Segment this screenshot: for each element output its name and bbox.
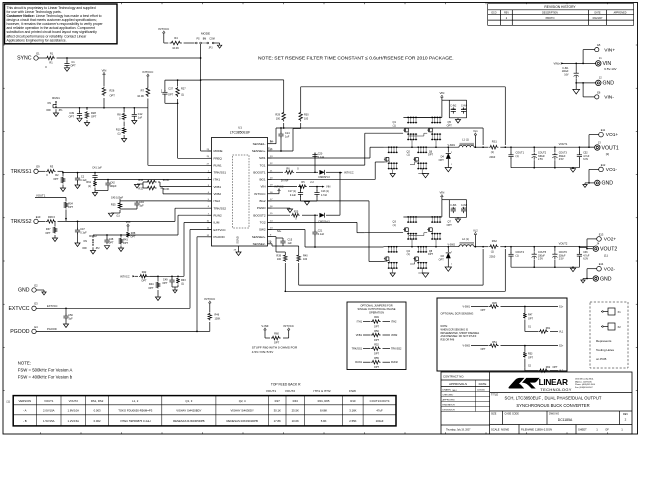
resistor R62 [524,368,526,371]
svg-text:25.5K: 25.5K [292,409,299,413]
svg-text:1uF: 1uF [68,318,73,321]
wire SENSE1 rail upper [201,79,284,81]
svg-text:INTVCC: INTVCC [158,27,169,31]
svg-text:OPT: OPT [91,115,97,119]
svg-text:100: 100 [277,258,282,261]
capacitor C36 4.7uF [578,247,580,253]
svg-text:FSW: FSW [349,389,356,393]
resistor R60 [264,333,266,338]
svg-text:E11: E11 [601,128,606,132]
wire SENSE1+ net [293,128,301,130]
svg-text:R46: R46 [215,314,220,317]
svg-text:SIZE: SIZE [491,413,497,416]
svg-text:R7: R7 [141,89,145,93]
svg-text:LTC3850EUF: LTC3850EUF [230,131,250,135]
svg-text:2.0V/10A: 2.0V/10A [43,409,55,413]
svg-text:Tooling Holes: Tooling Holes [596,348,615,352]
svg-text:VOUT1: VOUT1 [44,399,54,403]
svg-text:MODE: MODE [214,149,223,153]
svg-text:SCH, LTC3850EUF , DUAL PHASE/: SCH, LTC3850EUF , DUAL PHASE/DUAL OUTPUT [505,396,602,401]
jack VOUT1 [595,145,600,150]
svg-text:100: 100 [304,118,309,121]
svg-text:47uF: 47uF [376,409,383,413]
power INTVCC for R46 [209,303,211,306]
svg-text:TRK/SS1: TRK/SS1 [11,169,32,175]
resistor R27 [177,80,179,86]
svg-text:EXTVCC: EXTVCC [8,306,29,312]
svg-text:OPT: OPT [481,348,486,351]
svg-text:(1): (1) [181,283,184,286]
svg-text:100uF: 100uF [376,419,384,423]
svg-text:10.0K: 10.0K [172,46,179,50]
wire RUN2 to IC [92,235,94,238]
svg-text:Q2, 4: Q2, 4 [239,399,246,403]
svg-text:- A: - A [23,409,27,413]
tooling hole X2 [603,326,608,328]
diode D2 CMDSH-3 [315,214,318,216]
svg-text:RUN1: RUN1 [355,361,362,364]
proprietary notice box [5,4,118,44]
connector E6 VIN- [595,95,599,99]
svg-text:SENSE2+: SENSE2+ [252,235,266,239]
capacitor COUT5 330uF [533,247,535,252]
wire VO2- to GND jack [587,268,597,270]
svg-text:R49: R49 [374,316,379,319]
svg-text:0.1uF: 0.1uF [290,194,297,197]
svg-text:R28: R28 [91,111,96,115]
resistor R5 2.2 [268,186,298,188]
wire SW1 to power stage [315,157,370,159]
capacitor C-IN4 OPT [453,99,467,101]
svg-text:RS2: RS2 [492,239,498,243]
svg-text:TG2: TG2 [260,220,266,224]
svg-text:TRK/SS1: TRK/SS1 [214,171,227,175]
svg-text:INTVCC: INTVCC [143,70,154,74]
svg-text:OPT: OPT [428,154,434,157]
svg-text:TRK/SS1: TRK/SS1 [352,348,363,351]
resistor R63 [171,283,173,286]
capacitor C-IN1 100uF 16V [575,63,577,71]
svg-text:OPT: OPT [374,325,380,328]
svg-text:[1]: [1] [7,399,10,403]
wire VIN- to GND [583,96,595,98]
tooling holes dashed box [590,302,628,368]
capacitor C12 [133,108,135,113]
svg-text:E9: E9 [36,165,40,169]
svg-text:R27: R27 [181,87,186,90]
resistor R10 [123,122,125,127]
svg-text:10.0K: 10.0K [137,94,144,98]
svg-text:E12: E12 [601,163,606,167]
svg-text:1: 1 [451,164,452,166]
ground for R2 [62,185,64,189]
diode D1 CMDSH-3 [315,171,318,173]
svg-text:LINEAR: LINEAR [539,377,568,387]
svg-text:SINGLE OUTPUT/DUAL PHASE: SINGLE OUTPUT/DUAL PHASE [358,307,396,311]
svg-text:RS1: RS1 [492,139,498,143]
ground for C2 [77,182,79,186]
svg-text:(1): (1) [117,132,120,135]
ground for R61/C42 [94,188,96,193]
svg-text:[1]: [1] [604,253,608,257]
svg-text:(1): (1) [116,215,119,218]
svg-text:PGOOD: PGOOD [10,329,30,335]
svg-text:OPT: OPT [447,125,453,128]
resistor R53 [524,346,526,352]
connector E12 VO1- [599,167,604,172]
ground for C50 [65,320,67,325]
version table [13,396,396,426]
svg-text:OPT: OPT [528,357,533,360]
svg-text:C41 1uF: C41 1uF [92,166,102,169]
svg-text:OPT: OPT [70,64,76,68]
svg-text:Q1, 3: Q1, 3 [185,399,192,403]
svg-text:1: 1 [451,264,452,266]
capacitor C50 [65,308,67,314]
svg-text:03/21/07: 03/21/07 [593,17,603,20]
svg-text:INTVCC: INTVCC [275,186,284,189]
resistor R40 100 [276,245,299,247]
svg-text:EXTVCC: EXTVCC [214,228,227,232]
resistor R30 100 [300,87,302,111]
svg-text:2010: 2010 [489,255,495,259]
svg-text:C13 (1): C13 (1) [321,190,329,193]
svg-text:8.66K: 8.66K [320,409,327,413]
svg-text:DESIGN/CR: DESIGN/CR [443,410,456,412]
svg-text:- B: - B [23,419,27,423]
resistor R47 [524,307,526,313]
svg-text:100pF: 100pF [109,185,117,188]
svg-text:OPT: OPT [439,259,445,262]
wire VO2+ stub [587,238,597,240]
svg-text:OPT: OPT [168,93,174,96]
svg-text:REV: REV [504,13,509,15]
svg-text:(1): (1) [407,253,410,256]
svg-text:R33: R33 [138,179,143,182]
resistor R33 20.0K [160,186,212,188]
svg-text:R26: R26 [110,89,115,93]
svg-text:6.3V: 6.3V [583,258,588,261]
svg-text:GND: GND [602,181,614,187]
wire TRK/SS2 net [58,220,67,222]
capacitor C17 0.1uF [300,187,302,191]
connector E3 EXTVCC [32,306,36,310]
svg-text:C-IN4: C-IN4 [461,105,468,107]
svg-text:SENSE1-: SENSE1- [253,142,266,146]
wire PLL filter top to MODE bus [165,79,201,81]
svg-text:OPT: OPT [553,366,558,369]
connector E11 VO1+ [599,132,604,137]
connector E10 TRK/SS2 [34,219,38,223]
svg-text:OPERATION: OPERATION [369,311,384,315]
wire output rail [505,146,594,148]
svg-text:OPTIONAL JUMPERS FOR: OPTIONAL JUMPERS FOR [360,304,392,308]
resistor R32 20.0K [163,193,212,195]
svg-text:2: 2 [451,252,452,254]
svg-text:OPT: OPT [374,339,380,342]
svg-text:R53: R53 [528,353,533,356]
jack GND output2 [593,276,598,281]
svg-text:ITH1 & ITH2: ITH1 & ITH2 [313,389,330,393]
test point VL2 [474,238,476,247]
svg-text:R10: R10 [116,129,121,132]
svg-text:SYNC: SYNC [17,56,32,62]
svg-text:FREQ: FREQ [214,156,223,160]
svg-text:R52: R52 [374,343,379,346]
svg-text:OF: OF [605,428,609,432]
svg-text:RENESAS RJK0305DPB: RENESAS RJK0305DPB [173,419,205,423]
svg-text:R55: R55 [374,357,379,360]
svg-text:(1): (1) [88,185,91,188]
ground for PGND pin [268,207,291,209]
svg-text:S1+: S1+ [559,306,564,309]
power VIN for R38 [127,226,129,229]
capacitor C-IN6 10uF [442,199,453,201]
svg-text:TRK/SS2: TRK/SS2 [391,348,402,351]
resistor R4 10.0K [163,36,165,43]
U1 thermal pad dashed outline [233,155,250,228]
svg-text:ILIM: ILIM [214,221,220,225]
jack VOUT2 [593,246,598,251]
ground for sync fets [392,169,394,174]
svg-text:SW2: SW2 [259,228,266,232]
svg-text:VO2-: VO2- [604,266,616,272]
wire TG2 to gate [268,221,358,223]
svg-text:C-IN8: C-IN8 [461,205,468,207]
wire output ground rail [511,266,579,268]
svg-text:R62: R62 [546,366,551,369]
svg-text:OPT: OPT [481,309,486,312]
power VIN for stage [441,97,443,100]
svg-text:PGOOD: PGOOD [214,235,226,239]
capacitor COUT2 330uF [533,147,535,152]
svg-text:VOUT2: VOUT2 [285,389,296,393]
power VIN for stage [441,197,443,200]
svg-text:X2: X2 [618,325,622,329]
svg-text:S2-: S2- [268,241,272,244]
capacitor COUT6 330uF [554,247,556,252]
svg-text:100: 100 [303,258,308,261]
capacitor C47 [77,221,79,228]
resistor R36 [38,220,45,222]
svg-text:REVISION HISTORY: REVISION HISTORY [544,5,576,9]
ground for C13/C17 [304,202,309,206]
capacitor C13 4.7uF [316,187,318,191]
svg-text:C39: C39 [69,111,74,115]
svg-text:VIN-: VIN- [604,95,614,101]
resistor R61 [524,329,526,332]
svg-text:U1: U1 [238,126,242,130]
svg-text:VOUT1: VOUT1 [36,194,46,198]
svg-text:VFB2: VFB2 [391,334,398,337]
svg-text:Fax: (408)434-0507: Fax: (408)434-0507 [575,387,593,389]
svg-text:Thursday, July 19, 2007: Thursday, July 19, 2007 [446,429,471,432]
ground for output caps [570,268,575,272]
svg-text:R3: R3 [50,165,54,169]
svg-text:TECHNOLOGY: TECHNOLOGY [540,387,572,392]
ground for D4 [445,168,451,172]
svg-text:VL2: VL2 [473,228,478,232]
svg-text:C-IN6: C-IN6 [450,205,457,207]
svg-text:(1): (1) [491,250,494,254]
svg-text:OPT: OPT [69,115,75,119]
svg-text:S2+: S2+ [277,230,282,233]
svg-text:3.16K: 3.16K [349,409,356,413]
svg-text:17.8K: 17.8K [274,419,281,423]
wire gate feeds [385,161,388,163]
connector E2 GND [32,288,36,292]
resistor R3 [38,170,45,172]
resistor R7 10.0K [147,79,149,87]
svg-text:0.002: 0.002 [94,419,101,423]
connector E1 SYNC [34,56,38,60]
svg-text:OPT: OPT [447,224,453,227]
svg-text:on PCB: on PCB [596,357,606,361]
capacitor C44 [119,199,121,202]
svg-text:FSW = 400kHz For Vesion b: FSW = 400kHz For Vesion b [18,375,73,380]
power INTVCC for R4 [163,33,165,36]
capacitor C2 [77,173,79,177]
svg-text:DATE: DATE [595,12,601,15]
svg-text:VO1+: VO1+ [606,132,619,138]
svg-text:V-SW2: V-SW2 [463,345,471,348]
svg-text:OPT: OPT [68,206,74,209]
ground for C48 [104,246,109,250]
svg-text:OPT: OPT [528,318,533,321]
svg-text:R27: R27 [275,399,281,403]
svg-text:R37: R37 [46,228,51,231]
svg-text:10uF: 10uF [451,209,457,211]
svg-text:1.2V/15A: 1.2V/15A [67,419,79,423]
svg-text:R35 OR R46: R35 OR R46 [441,339,455,342]
svg-text:C1: C1 [71,60,75,64]
svg-text:TRK/SS2: TRK/SS2 [214,206,227,210]
svg-text:VISHAY Si4630DY: VISHAY Si4630DY [231,409,255,413]
svg-text:RS1, RS2: RS1, RS2 [91,399,104,403]
capacitor C37 with R27 PLL filter [164,80,166,91]
svg-text:VO2+: VO2+ [604,237,617,243]
ground for E2 [36,289,44,291]
svg-text:SW1: SW1 [259,156,266,160]
capacitor C49 [171,276,173,278]
svg-text:INTVCC: INTVCC [344,171,354,175]
svg-text:DESCRIPTION: DESCRIPTION [542,13,558,15]
svg-text:VIN: VIN [260,185,265,189]
svg-text:S1+: S1+ [268,148,273,151]
wire drain rail [441,200,443,217]
resistor R25 0 [268,214,291,216]
svg-text:VIN+: VIN+ [604,47,615,53]
ground for R37 [54,235,56,238]
svg-text:R1: R1 [49,61,53,65]
svg-text:V-SW1: V-SW1 [463,306,471,309]
svg-text:ON: ON [83,240,87,243]
svg-text:(1): (1) [491,150,494,154]
svg-text:100: 100 [276,118,281,121]
svg-text:DC1185A: DC1185A [558,418,573,422]
svg-text:0.1uF: 0.1uF [80,232,87,235]
jack J1 VIN [596,61,601,66]
svg-text:RUN1: RUN1 [52,96,60,100]
svg-text:Represents: Represents [596,339,612,343]
svg-text:4.5V<VIN<5.5V: 4.5V<VIN<5.5V [252,350,274,354]
jack J2 GND [596,80,601,85]
ground for D3 [445,267,451,271]
svg-text:SENSE2-: SENSE2- [253,242,266,246]
resistor R38 [127,229,129,231]
svg-text:X1: X1 [618,310,622,314]
ground for R44 [157,290,159,297]
wire gate feeds [385,261,388,263]
connector E9 TRK/SS1 [34,169,38,173]
svg-text:CONTRACT NO.: CONTRACT NO. [443,375,464,379]
svg-text:R42: R42 [142,271,147,274]
wire VO1- to GND jack [589,168,599,170]
wire SENSE2 rail to RS2 [299,284,483,286]
wire BG1 to gate [268,178,376,180]
wire output ground rail [511,167,579,169]
svg-text:1uF: 1uF [285,136,290,139]
svg-text:E1: E1 [36,51,40,55]
ground for C1 [64,68,69,72]
svg-text:VOUT1: VOUT1 [602,145,619,151]
svg-text:1.8V/10A: 1.8V/10A [67,409,79,413]
svg-text:10/31/06: 10/31/06 [477,390,486,392]
svg-text:2.5V: 2.5V [538,258,543,261]
svg-text:2010: 2010 [489,155,495,159]
svg-text:COUT1/COUT4: COUT1/COUT4 [370,399,390,403]
svg-text:Milpitas, CA 95035: Milpitas, CA 95035 [575,380,593,383]
svg-text:R36 0: R36 0 [48,215,55,219]
wire ITH1 net [95,179,212,181]
svg-text:RUN2: RUN2 [214,213,222,217]
svg-text:VOUT1: VOUT1 [266,389,277,393]
svg-text:V-INF: V-INF [261,324,268,328]
svg-text:ITH2: ITH2 [214,199,221,203]
svg-text:ITH2: ITH2 [391,320,397,323]
optional jumpers box [347,302,406,370]
svg-text:L1, 2: L1, 2 [132,399,139,403]
svg-text:VFB1: VFB1 [356,334,363,337]
svg-text:OPT: OPT [462,209,467,211]
optional DCR sensing box [437,298,567,371]
svg-text:(1): (1) [516,155,519,158]
svg-text:OPT: OPT [162,282,168,285]
svg-text:[1]: [1] [606,152,610,156]
svg-text:SYNCHRONOUS BUCK CONVERTER: SYNCHRONOUS BUCK CONVERTER [516,403,589,408]
svg-text:TITLE: TITLE [491,393,498,397]
svg-text:100K: 100K [215,318,221,321]
wire BG2 to gate [268,200,370,202]
ground for C39 [77,118,82,122]
svg-text:VITEC 59PR9875 0.4uH: VITEC 59PR9875 0.4uH [120,419,150,423]
svg-text:R61: R61 [86,181,91,184]
svg-text:SHEET: SHEET [578,428,587,432]
ground for JP3 [214,42,220,44]
svg-text:E14: E14 [599,262,604,266]
svg-text:R29: R29 [275,114,280,117]
resistor R41 [120,235,122,237]
svg-text:E4: E4 [34,325,38,329]
svg-text:CMDSH-3: CMDSH-3 [318,176,330,179]
svg-text:BM: BM [203,39,207,41]
resistor R35 [118,202,122,209]
connector E4 PGOOD [32,329,36,333]
svg-text:VOUT1: VOUT1 [559,142,568,146]
resistor R29 100 [282,111,286,122]
svg-text:VOUT2: VOUT2 [69,399,79,403]
svg-text:ITH1: ITH1 [357,320,363,323]
